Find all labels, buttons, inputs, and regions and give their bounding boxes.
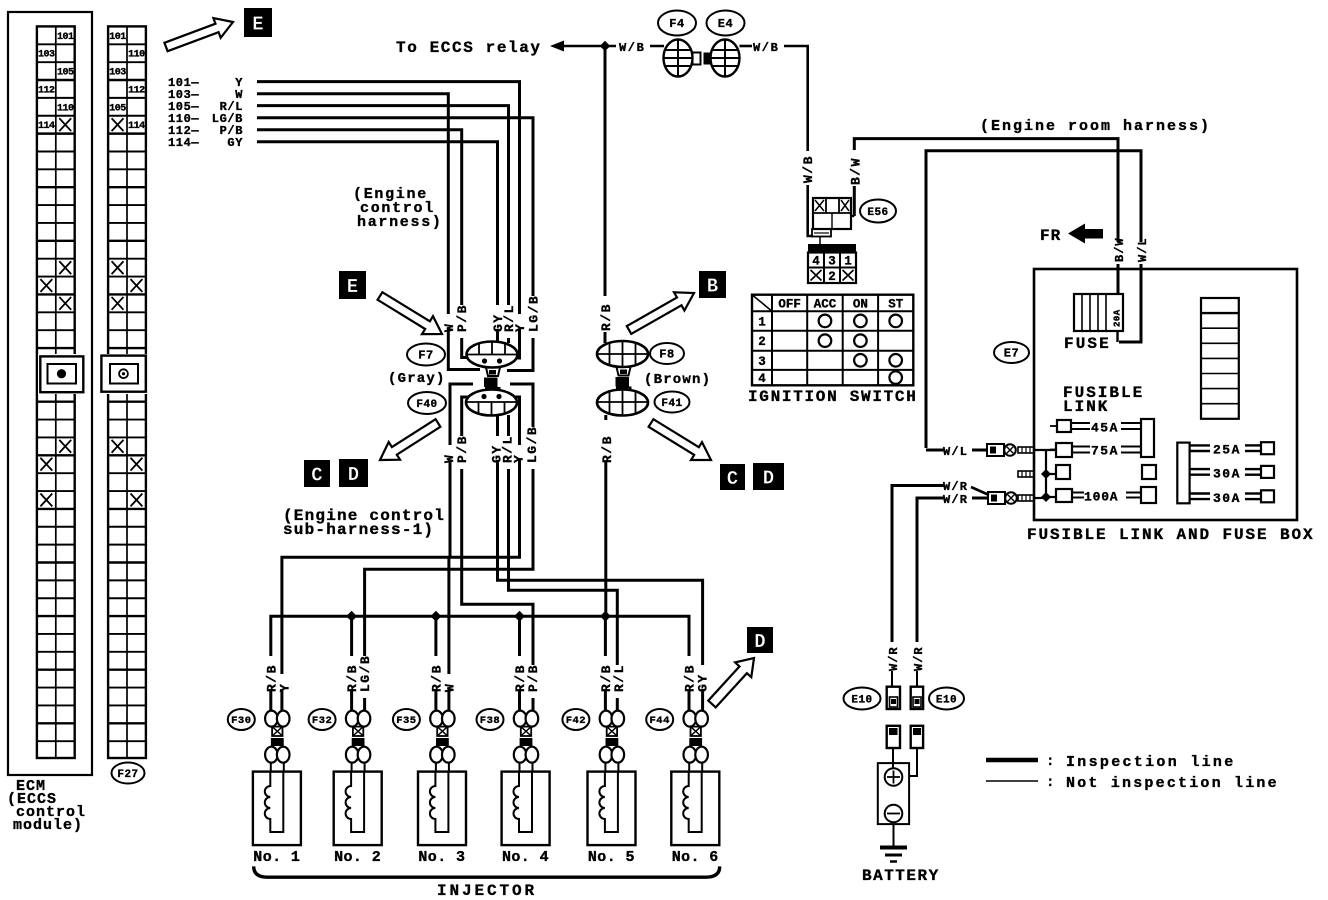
connector F8 (brown, oval) [597, 341, 648, 367]
injector body No. 5 [588, 772, 636, 846]
svg-text:W/R: W/R [912, 646, 926, 671]
svg-text:114—: 114— [168, 136, 199, 150]
svg-text:W/R: W/R [887, 646, 901, 671]
svg-text:3: 3 [758, 355, 766, 369]
wire Y from F40 to injector No.1 [282, 397, 520, 711]
svg-text:W/L: W/L [943, 445, 968, 459]
svg-text:B/W: B/W [848, 157, 863, 185]
svg-text:2: 2 [828, 270, 836, 284]
svg-text:D: D [763, 467, 774, 489]
fusible link bus bar [1141, 419, 1154, 457]
injector left feed wires R/B [350, 616, 353, 711]
svg-text:25A: 25A [1213, 443, 1241, 458]
svg-text:No. 2: No. 2 [334, 849, 381, 866]
svg-text:F42: F42 [566, 715, 586, 727]
svg-text:45A: 45A [1091, 421, 1119, 436]
injector-side connector pair (No. 4) [514, 747, 527, 763]
svg-text:harness): harness) [357, 214, 443, 231]
bolt hole box (right strip) [100, 354, 147, 394]
arrow to view B [627, 292, 694, 334]
svg-text:2: 2 [758, 335, 766, 349]
svg-text:3: 3 [828, 255, 836, 269]
view box E (top-left) [244, 8, 272, 37]
arrowhead to ECCS relay [550, 41, 564, 52]
svg-text:E: E [252, 13, 263, 35]
svg-text:E: E [347, 276, 358, 298]
svg-text:30A: 30A [1213, 491, 1241, 506]
svg-text:OFF: OFF [778, 298, 801, 312]
F8 latch tab [617, 367, 631, 376]
svg-text:W/B: W/B [801, 155, 816, 183]
svg-text:W/R: W/R [943, 493, 968, 507]
svg-text:LG/B: LG/B [525, 426, 540, 463]
svg-text:Not inspection line: Not inspection line [1066, 775, 1279, 792]
svg-text::: : [1046, 775, 1054, 791]
injector harness connector pair (No. 1) [265, 711, 278, 727]
connector label E7 [994, 342, 1029, 363]
connector label F42 [562, 709, 589, 730]
fusible link 100A [1056, 489, 1072, 502]
svg-text:Inspection line: Inspection line [1066, 754, 1236, 771]
fusible link and fuse box outline [1034, 269, 1297, 520]
svg-text:W/B: W/B [753, 41, 779, 55]
svg-text:4: 4 [812, 255, 820, 269]
svg-text:BATTERY: BATTERY [862, 867, 940, 885]
injector lead wires (No. 2) [351, 763, 353, 772]
view box C (right) [720, 464, 745, 490]
injector-side connector pair (No. 6) [684, 747, 697, 763]
connector lock hatch (No. 1) [272, 727, 282, 736]
svg-text:F38: F38 [480, 715, 500, 727]
injector lead wires (No. 6) [688, 763, 690, 772]
junction dots on bus [346, 611, 357, 622]
wire LG/B from F40 to injector No.2 [365, 384, 533, 711]
wires W/R from battery [892, 486, 944, 633]
wire R/L from F40 to injector No.5 [509, 415, 618, 711]
injector-side connector pair (No. 3) [430, 747, 443, 763]
svg-text:INJECTOR: INJECTOR [437, 882, 537, 900]
legend: not inspection line [986, 780, 1038, 782]
junction node (W/B / R/B) [600, 41, 610, 51]
svg-text:W: W [442, 683, 457, 692]
mating lock (black) between F7 and F40 [484, 378, 498, 388]
connector E10 (left pair) [887, 687, 900, 709]
connector label F32 [309, 709, 336, 730]
injector lead wires (No. 4) [519, 763, 521, 772]
svg-text:LINK: LINK [1063, 398, 1109, 416]
svg-text:E10: E10 [936, 694, 957, 706]
svg-text:P/B: P/B [526, 664, 541, 692]
svg-text:R/L: R/L [612, 664, 627, 692]
svg-text:LG/B: LG/B [527, 295, 542, 332]
connector lock black (No. 1) [271, 738, 284, 746]
svg-text:F4: F4 [669, 17, 684, 31]
connector label F41 [655, 392, 690, 413]
svg-text:(Gray): (Gray) [388, 371, 446, 387]
rotated label R/B [599, 296, 611, 332]
svg-text:P/B: P/B [455, 304, 470, 332]
ignition switch position table [752, 295, 913, 386]
injector lead wires (No. 5) [604, 763, 606, 772]
svg-text:101: 101 [57, 32, 74, 43]
injector No. 6 wire labels R/B and GY [684, 656, 696, 689]
svg-text:F30: F30 [231, 715, 251, 727]
connector label F27 [112, 763, 145, 784]
battery leads [892, 748, 894, 769]
connector label E56 [860, 200, 896, 223]
W/L connector pair [987, 444, 1004, 456]
svg-text:E10: E10 [851, 694, 872, 706]
fusible link 45A [1050, 425, 1057, 427]
svg-text:105: 105 [57, 68, 74, 79]
svg-text:W/B: W/B [619, 41, 645, 55]
wire W/B to ECCS relay [562, 45, 664, 48]
svg-text:(Brown): (Brown) [644, 372, 711, 388]
arrow to view E (top-left) [164, 18, 233, 51]
wire P/B from pin 112 to F7 [257, 130, 468, 358]
legend: inspection line [986, 758, 1038, 763]
hatched terminal stub (middle) [1018, 471, 1034, 477]
svg-text:110: 110 [128, 50, 145, 61]
connector lock hatch (No. 2) [353, 727, 363, 736]
svg-text::: : [1046, 754, 1054, 770]
connector lock black (No. 5) [606, 738, 619, 746]
svg-text:F7: F7 [418, 349, 433, 363]
connector label E10 (right) [929, 688, 964, 710]
F7 latch tab [486, 368, 500, 377]
connector lock black (No. 2) [352, 738, 365, 746]
svg-text:F32: F32 [312, 715, 332, 727]
connector F4 (round, body side) [664, 40, 693, 77]
injector lead wires (No. 3) [435, 763, 437, 772]
svg-text:110: 110 [57, 103, 74, 114]
svg-text:No. 4: No. 4 [502, 849, 549, 866]
svg-text:100A: 100A [1084, 490, 1118, 505]
svg-text:114: 114 [38, 121, 55, 132]
svg-text:112: 112 [38, 85, 55, 96]
view box B [699, 271, 726, 298]
svg-text:Y: Y [277, 683, 292, 692]
svg-text:D: D [348, 464, 359, 486]
svg-text:GY: GY [227, 136, 243, 150]
injector No. 1 wire labels R/B and Y [265, 656, 277, 689]
svg-text:1: 1 [844, 255, 852, 269]
injector-side connector pair (No. 1) [265, 747, 278, 763]
svg-text:(Engine room harness): (Engine room harness) [980, 118, 1211, 135]
injector coil No. 1 [265, 772, 284, 832]
injector coil No. 4 [514, 772, 533, 832]
rotated label W/B (ignition feed) [801, 151, 813, 185]
injector No. 5 wire labels R/B and R/L [600, 656, 612, 689]
arrow E to F7 [378, 292, 442, 334]
svg-text:ACC: ACC [814, 298, 837, 312]
fuse bank 25A/30A/30A [1177, 443, 1189, 504]
svg-text:LG/B: LG/B [358, 655, 373, 692]
svg-text:E7: E7 [1004, 347, 1019, 361]
E56 connector tab [812, 229, 831, 237]
svg-text:F27: F27 [117, 769, 138, 781]
svg-text:F8: F8 [659, 348, 674, 362]
connector lock black (No. 4) [520, 738, 533, 746]
svg-text:C: C [311, 464, 322, 486]
svg-text:IGNITION SWITCH: IGNITION SWITCH [748, 388, 918, 406]
wire B/W stub to E56 [851, 215, 854, 217]
wire W/R (left) to battery [891, 632, 894, 645]
pin grid 431/X2X [819, 237, 821, 244]
rotated wire labels below F40 [443, 445, 455, 460]
injector harness connector pair (No. 4) [514, 711, 527, 727]
fuse bottom link to W/L [1116, 331, 1118, 342]
ECM connector strip (left, pin grid) [37, 26, 75, 758]
connector F4 latch tab [693, 53, 701, 65]
svg-text:No. 5: No. 5 [588, 849, 635, 866]
W/R connector pair [988, 492, 1005, 504]
svg-text:101: 101 [109, 32, 126, 43]
injector coil No. 6 [683, 772, 702, 832]
wire R/B from junction to F8 [604, 46, 607, 343]
wire R/L from pin 105 to F7 [257, 106, 509, 343]
injector coil No. 5 [599, 772, 618, 832]
rotated label B/W [848, 150, 860, 186]
svg-text:No. 3: No. 3 [418, 849, 465, 866]
rotated label W/L (at fuse box) [1135, 242, 1147, 264]
connector label F8 [650, 343, 684, 364]
connector lock black (No. 3) [436, 738, 449, 746]
fusible link 75A [1050, 449, 1056, 451]
connector F41 (oval) [617, 388, 631, 396]
svg-text:R/B: R/B [600, 435, 615, 463]
svg-text:FR: FR [1040, 227, 1061, 245]
spare link terminals [1056, 465, 1070, 479]
svg-text:20A: 20A [1113, 309, 1123, 327]
svg-text:F44: F44 [649, 715, 669, 727]
wire LG/B from pin 110 to F7 [257, 118, 533, 371]
fuse 20A [1074, 294, 1123, 331]
wire W/R (right) to battery [916, 640, 919, 645]
svg-text:B/W: B/W [1113, 237, 1127, 262]
injector harness connector pair (No. 6) [684, 711, 697, 727]
injector coil No. 3 [430, 772, 449, 832]
view box D (left) [339, 459, 368, 487]
injector lead wires (No. 1) [270, 763, 272, 772]
internal bus (fuse box left) [1045, 450, 1047, 497]
rotated label B/W (at fuse) [1112, 242, 1124, 264]
wire Y from pin 101 to F7 [257, 82, 520, 358]
connector lock hatch (No. 3) [437, 727, 447, 736]
hatched terminal (W/R) [1018, 495, 1034, 501]
svg-text:ST: ST [888, 298, 904, 312]
wire P/B from F40 to injector No.4 [462, 397, 533, 711]
rotated label R/B (below F41) [600, 420, 612, 462]
svg-text:No. 6: No. 6 [672, 849, 719, 866]
svg-text:1: 1 [758, 315, 766, 329]
injector-side connector pair (No. 2) [346, 747, 359, 763]
injector body No. 2 [334, 772, 382, 846]
svg-text:module): module) [13, 817, 83, 834]
svg-text:103: 103 [38, 50, 55, 61]
view box C (left) [304, 460, 330, 487]
view box D (right) [753, 463, 784, 490]
connector E10 (right pair) [911, 687, 923, 709]
mating lock (black) between F8 and F41 [616, 377, 630, 387]
injector harness connector pair (No. 5) [600, 711, 613, 727]
wire GY from pin 114 to F7 [257, 142, 498, 343]
harness connector strip F27 (right, pin grid) [108, 26, 146, 758]
svg-text:W/L: W/L [1136, 237, 1150, 262]
arrow to view D [708, 658, 754, 707]
rotated wire labels above F7: W P/B GY R/L Y LG/B [443, 314, 455, 329]
svg-text:F41: F41 [661, 398, 682, 410]
wire W from F40 to injector No.3 [450, 384, 473, 557]
svg-text:F40: F40 [416, 399, 437, 411]
view box D (injector) [747, 627, 773, 653]
connector F40 (4-pin oval) [486, 388, 500, 396]
svg-text:114: 114 [128, 121, 145, 132]
R/B supply bus [271, 616, 689, 711]
arrow to views C D (left) [380, 419, 440, 460]
svg-text:W/R: W/R [943, 480, 968, 494]
svg-text:C: C [727, 468, 738, 490]
wire B/W engine room harness (upper run) [854, 139, 1118, 294]
injector body No. 1 [253, 772, 301, 846]
injector No. 4 wire labels R/B and P/B [514, 656, 526, 689]
wire W/L engine room harness (lower run) [926, 151, 1141, 448]
svg-text:B: B [707, 275, 718, 297]
svg-text:To ECCS relay: To ECCS relay [396, 39, 542, 57]
view box E (at F7) [339, 271, 366, 299]
fuse row stack [1201, 298, 1239, 419]
connector label F4 [658, 11, 696, 36]
connector label F40 [408, 392, 446, 414]
svg-text:ON: ON [853, 298, 868, 312]
connector label F35 [393, 709, 420, 730]
svg-text:sub-harness-1): sub-harness-1) [283, 521, 434, 539]
connector label F44 [646, 709, 673, 730]
injector body No. 6 [671, 772, 719, 846]
svg-text:R/B: R/B [599, 303, 614, 331]
injector harness connector pair (No. 3) [430, 711, 443, 727]
svg-text:D: D [754, 631, 765, 653]
brace grouping injectors [254, 866, 720, 877]
ground [893, 824, 895, 847]
connector label F30 [228, 709, 255, 730]
svg-text:112: 112 [128, 85, 145, 96]
wire W/L into fuse box [926, 449, 944, 452]
connector label F7 [407, 344, 445, 366]
svg-text:E56: E56 [867, 207, 888, 219]
arrow to views C D (right) [649, 419, 711, 460]
connector label E10 (left) [844, 688, 881, 710]
ECM outer box [8, 12, 92, 775]
injector body No. 4 [502, 772, 550, 846]
svg-text:FUSE: FUSE [1064, 335, 1111, 353]
connector label E4 [707, 11, 745, 36]
svg-text:P/B: P/B [455, 435, 470, 463]
connector E4 (round, harness side) [711, 40, 740, 77]
injector harness connector pair (No. 2) [346, 711, 359, 727]
injector-side connector pair (No. 5) [600, 747, 613, 763]
connector F7 (gray, 4-pin oval) [467, 342, 518, 368]
connector lock hatch (No. 4) [521, 727, 531, 736]
battery [878, 763, 909, 824]
bolt hole box (left strip) [38, 354, 85, 394]
injector body No. 3 [418, 772, 466, 846]
wire R/B from F41 down to injector bus [604, 415, 607, 616]
injector coil No. 2 [346, 772, 365, 832]
hatched terminal (W/L) [1018, 447, 1034, 453]
connector lock black (No. 6) [689, 738, 702, 746]
wire W from pin 103 to F7 [257, 94, 480, 370]
wire W/B from E4 to ignition switch [740, 45, 753, 48]
connector lock hatch (No. 5) [607, 727, 617, 736]
svg-text:No. 1: No. 1 [253, 849, 300, 866]
W/R merge [971, 487, 989, 495]
svg-text:E4: E4 [718, 17, 733, 31]
svg-text:FUSIBLE LINK AND FUSE BOX: FUSIBLE LINK AND FUSE BOX [1027, 526, 1315, 544]
ignition switch connector E56 [813, 198, 851, 229]
svg-text:4: 4 [758, 372, 766, 386]
wire GY from F40 to injector No.6 [498, 415, 703, 711]
injector No. 2 wire labels R/B and LG/B [346, 656, 358, 689]
svg-text:75A: 75A [1091, 444, 1119, 459]
svg-text:105: 105 [109, 103, 126, 114]
svg-text:GY: GY [696, 673, 711, 692]
connector E4 latch tab (black) [704, 53, 712, 65]
svg-text:30A: 30A [1213, 466, 1241, 481]
injector No. 3 wire labels R/B and W [430, 656, 442, 689]
svg-text:F35: F35 [396, 715, 416, 727]
svg-text:103: 103 [109, 68, 126, 79]
connector label F38 [477, 709, 504, 730]
connector lock hatch (No. 6) [691, 727, 701, 736]
